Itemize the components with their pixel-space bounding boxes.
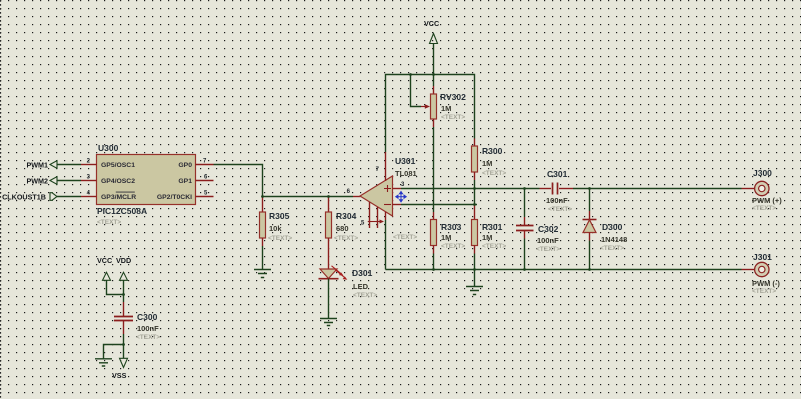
svg-text:<TEXT>: <TEXT> (752, 205, 776, 212)
svg-text:LED: LED (353, 282, 369, 291)
svg-text:GP0: GP0 (178, 162, 192, 169)
svg-text:PIC12C508A: PIC12C508A (97, 206, 147, 216)
svg-text:PWM1: PWM1 (26, 160, 48, 169)
svg-text:D300: D300 (602, 222, 623, 232)
svg-text:1M: 1M (482, 233, 492, 242)
svg-text:U300: U300 (98, 143, 119, 153)
svg-text:100nF: 100nF (546, 196, 568, 205)
svg-text:J301: J301 (753, 252, 772, 262)
svg-text:<TEXT>: <TEXT> (393, 234, 417, 241)
svg-text:GP5/OSC1: GP5/OSC1 (101, 162, 135, 169)
svg-text:PWM (-): PWM (-) (752, 279, 780, 288)
svg-text:R300: R300 (482, 146, 503, 156)
svg-text:PWM2: PWM2 (26, 176, 48, 185)
svg-text:GP3/MCLR: GP3/MCLR (101, 194, 136, 201)
svg-text:RV302: RV302 (440, 92, 466, 102)
svg-text:<TEXT>: <TEXT> (353, 292, 377, 299)
svg-text:J300: J300 (753, 168, 772, 178)
svg-text:VCC: VCC (424, 19, 439, 28)
svg-text:<TEXT>: <TEXT> (536, 246, 560, 253)
svg-text:1N4148: 1N4148 (601, 235, 627, 244)
svg-text:CLKOUST1B: CLKOUST1B (2, 192, 46, 201)
svg-text:TL081: TL081 (395, 169, 417, 178)
svg-text:VDD: VDD (116, 256, 131, 265)
svg-text:<TEXT>: <TEXT> (334, 235, 358, 242)
svg-text:<TEXT>: <TEXT> (136, 334, 160, 341)
svg-text:10k: 10k (269, 224, 282, 233)
svg-text:U301: U301 (395, 156, 416, 166)
svg-text:R305: R305 (269, 211, 290, 221)
svg-text:<TEXT>: <TEXT> (600, 245, 624, 252)
svg-text:C301: C301 (547, 169, 568, 179)
svg-text:<TEXT>: <TEXT> (97, 219, 121, 226)
svg-text:<TEXT>: <TEXT> (482, 170, 506, 177)
svg-text:1M: 1M (441, 104, 451, 113)
svg-text:VCC: VCC (97, 256, 112, 265)
svg-text:VSS: VSS (112, 371, 127, 380)
svg-text:GP2/T0CKI: GP2/T0CKI (157, 194, 192, 201)
svg-text:1M: 1M (441, 233, 451, 242)
svg-text:<TEXT>: <TEXT> (752, 288, 776, 295)
svg-text:C300: C300 (137, 312, 158, 322)
svg-text:GP4/OSC2: GP4/OSC2 (101, 178, 135, 185)
svg-text:1M: 1M (482, 159, 492, 168)
svg-text:680: 680 (336, 224, 349, 233)
svg-text:<TEXT>: <TEXT> (482, 243, 506, 250)
svg-text:100nF: 100nF (137, 324, 159, 333)
svg-text:PWM (+): PWM (+) (752, 196, 782, 205)
svg-text:100nF: 100nF (537, 236, 559, 245)
svg-text:R304: R304 (336, 211, 357, 221)
svg-text:GP1: GP1 (178, 178, 192, 185)
svg-text:C302: C302 (538, 224, 559, 234)
svg-text:D301: D301 (352, 268, 373, 278)
svg-text:<TEXT>: <TEXT> (441, 114, 465, 121)
svg-text:<TEXT>: <TEXT> (548, 206, 572, 213)
svg-text:R303: R303 (441, 222, 462, 232)
svg-text:<TEXT>: <TEXT> (268, 235, 292, 242)
svg-text:R301: R301 (482, 222, 503, 232)
svg-text:<TEXT>: <TEXT> (441, 243, 465, 250)
